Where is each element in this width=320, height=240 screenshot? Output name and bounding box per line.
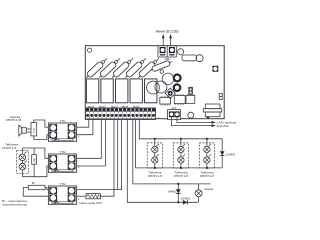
svg-text:1N4002: 1N4002 [226,152,236,156]
svg-text:УТН: УТН [60,182,66,186]
svg-text:-: - [46,165,47,169]
svg-text:ОПОП 1-8: ОПОП 1-8 [174,174,188,178]
svg-text:Цепь пуска АУП: Цепь пуска АУП [80,201,102,205]
svg-text:тельный резистор: тельный резистор [2,202,27,206]
svg-text:+: + [158,116,160,120]
svg-text:+: + [78,165,80,169]
svg-text:УТН: УТН [60,119,66,123]
svg-text:4,7К: 4,7К [32,128,36,134]
svg-text:5х Рубеж: 5х Рубеж [217,124,229,128]
svg-text:Линия (DC12В): Линия (DC12В) [155,30,178,34]
svg-text:+: + [78,134,80,138]
svg-text:АЛС: АЛС [172,107,177,110]
svg-text:-: - [46,134,47,138]
svg-text:240: 240 [32,158,36,163]
svg-text:1N4002: 1N4002 [167,190,177,194]
svg-text:ОПОП 1-8: ОПОП 1-8 [148,174,162,178]
svg-text:ОПОП 1-8: ОПОП 1-8 [200,174,214,178]
svg-text:Лампа: Лампа [204,187,213,191]
svg-text:УТН: УТН [60,150,66,154]
svg-text:ОПОП 1-8: ОПОП 1-8 [2,146,16,150]
svg-text:1N4002: 1N4002 [181,196,191,200]
svg-text:-: - [46,197,47,201]
svg-text:Rт: Rт [32,181,36,185]
svg-text:ОПОП 2-35: ОПОП 2-35 [6,118,22,122]
